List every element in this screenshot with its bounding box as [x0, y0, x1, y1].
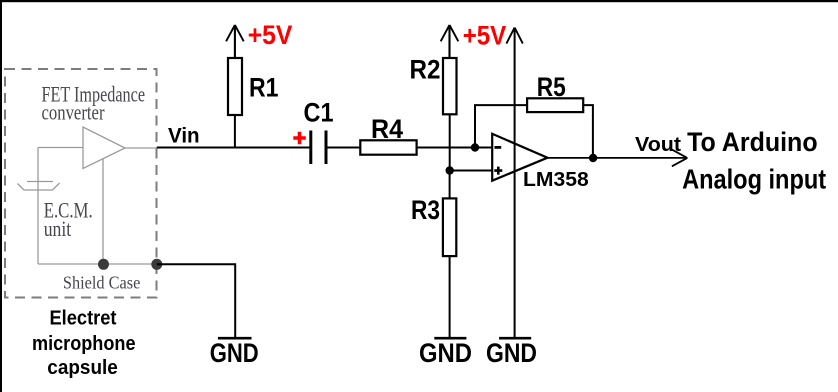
output arrow head: [672, 150, 687, 167]
C1 polarity +: [293, 132, 306, 145]
svg-text:GND: GND: [210, 338, 259, 368]
svg-text:R5: R5: [537, 72, 566, 102]
capacitor C1: [311, 131, 361, 165]
svg-text:C1: C1: [304, 98, 334, 128]
wire R5 to output: [583, 105, 593, 158]
svg-text:+5V: +5V: [248, 20, 293, 50]
power +5V arrow (op-amp supply) and supply/ground rail: [506, 28, 522, 338]
resistor R4: [360, 140, 416, 154]
svg-text:Vin: Vin: [168, 125, 200, 148]
wire buffer input: [38, 147, 83, 149]
resistor R3: [443, 171, 456, 338]
svg-text:Vout: Vout: [635, 134, 681, 156]
svg-text:unit: unit: [44, 216, 71, 241]
wire Vin rail: [157, 147, 311, 149]
ground GND (op-amp): [486, 338, 537, 368]
resistor R5: [527, 98, 583, 112]
svg-text:R3: R3: [411, 195, 440, 225]
wire shield to GND: [157, 264, 235, 337]
node bias junction (non-inverting input): [446, 166, 454, 174]
svg-text:converter: converter: [42, 100, 106, 125]
power +5V arrow (R1): [226, 25, 244, 58]
svg-text:R1: R1: [249, 72, 279, 102]
E.C.M. unit label: [44, 198, 93, 242]
resistor R1: [228, 58, 242, 148]
op-amp buffer inside capsule: [83, 127, 125, 169]
power +5V arrow (R2): [441, 25, 459, 58]
node output junction: [589, 154, 597, 162]
wire buffer ground drop: [102, 159, 104, 265]
node shield junction 2: [151, 259, 162, 270]
wire shield line: [38, 263, 157, 265]
svg-text:Analog input: Analog input: [682, 163, 826, 194]
wire electret to buffer: [37, 148, 39, 265]
svg-text:capsule: capsule: [47, 357, 118, 379]
ground GND (R3): [419, 338, 472, 368]
svg-text:GND: GND: [419, 338, 472, 368]
node shield junction 1: [98, 259, 109, 270]
ground GND (microphone): [210, 338, 259, 368]
svg-text:GND: GND: [486, 338, 537, 368]
node feedback junction: [471, 143, 479, 151]
svg-text:+5V: +5V: [463, 21, 507, 51]
wire feedback junction up to R5: [475, 105, 527, 147]
svg-text:Electret: Electret: [50, 308, 117, 330]
svg-text:To Arduino: To Arduino: [687, 127, 818, 157]
svg-text:R2: R2: [410, 55, 441, 85]
Electret microphone capsule label: [32, 308, 136, 379]
svg-text:microphone: microphone: [32, 333, 136, 355]
svg-text:Shield Case: Shield Case: [63, 273, 141, 293]
wire bias junction to non-inverting input: [450, 170, 493, 172]
wire R4 to op-amp inverting input: [417, 147, 493, 149]
op-amp U1: [492, 134, 547, 181]
wire buffer output to box edge: [125, 147, 158, 149]
svg-text:R4: R4: [371, 114, 403, 144]
FET Impedance converter label: [42, 82, 146, 125]
svg-text:LM358: LM358: [523, 169, 589, 191]
resistor R2: [443, 58, 457, 171]
electret microphone capsule dashed box: [5, 69, 157, 298]
electret capsule element: [18, 182, 60, 191]
wire op-amp output: [548, 157, 688, 159]
